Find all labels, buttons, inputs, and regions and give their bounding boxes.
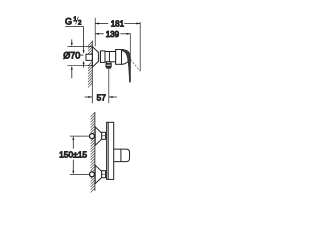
left extension line for 181/139 dims <box>94 18 96 47</box>
handle knob division <box>120 149 122 162</box>
lever open position (thin dashed) <box>130 59 140 71</box>
G 1/2 label <box>65 16 82 26</box>
wall line (side view) <box>91 41 93 104</box>
top tick <box>70 135 89 137</box>
cap ring <box>116 50 122 65</box>
lower wall union ring <box>90 172 95 177</box>
wall pipe stub G1/2 <box>86 54 92 60</box>
cartridge dome cap <box>113 50 130 65</box>
extension line 181 (right) <box>139 22 141 71</box>
bottom tick <box>70 173 89 175</box>
G1/2 leader arrow (down, at pipe top) <box>83 50 85 54</box>
extension line 139 (right) <box>129 33 131 81</box>
union nut <box>100 51 105 63</box>
Ø70 top arrow (down) <box>71 39 73 43</box>
lower escutcheon cone <box>95 165 101 183</box>
svg-text:181: 181 <box>111 20 125 29</box>
pipe lower arrow (up, at pipe bottom) <box>83 61 85 65</box>
wall hatching (top view) <box>91 113 95 193</box>
Ø70 bottom extension tick <box>68 65 93 67</box>
svg-text:139: 139 <box>106 30 120 39</box>
dimension 139 <box>95 30 130 39</box>
handle (top view): stem and knob <box>114 149 130 162</box>
lever handle blade (side view) <box>121 50 130 83</box>
escutcheon face ring <box>99 52 101 61</box>
svg-text:Ø70: Ø70 <box>63 50 80 60</box>
faucet body slab (top view) <box>107 122 114 179</box>
extension line from outlet down to 57 dim <box>108 69 110 104</box>
shower outlet stub <box>106 62 111 64</box>
svg-text:150±15: 150±15 <box>59 150 87 160</box>
svg-text:2: 2 <box>78 19 82 26</box>
Ø70 top extension tick <box>68 46 93 48</box>
dimension 57 <box>85 92 117 102</box>
escutcheon (side view cone) <box>92 47 98 67</box>
bottom arrow (down) <box>72 171 74 175</box>
outlet collar <box>106 64 111 67</box>
wall hatching lower <box>88 62 92 88</box>
upper union nut <box>102 132 106 139</box>
wall line (top view) <box>94 112 96 191</box>
dimension 181 <box>95 20 140 29</box>
faucet body (side view) <box>105 52 116 62</box>
wall hatching upper <box>88 42 92 57</box>
top arrow (up) <box>72 136 74 140</box>
outlet nipple <box>107 67 111 68</box>
body division line <box>108 52 110 62</box>
upper escutcheon cone <box>95 127 101 145</box>
svg-text:57: 57 <box>97 92 107 102</box>
Ø70 bottom arrow (up) <box>71 66 73 70</box>
svg-text:G: G <box>65 16 72 26</box>
G1/2 leader line <box>65 27 83 51</box>
dimension 150±15 <box>59 136 89 174</box>
body inner line <box>107 122 109 179</box>
lower union nut <box>102 171 106 178</box>
upper wall union ring <box>90 134 95 139</box>
